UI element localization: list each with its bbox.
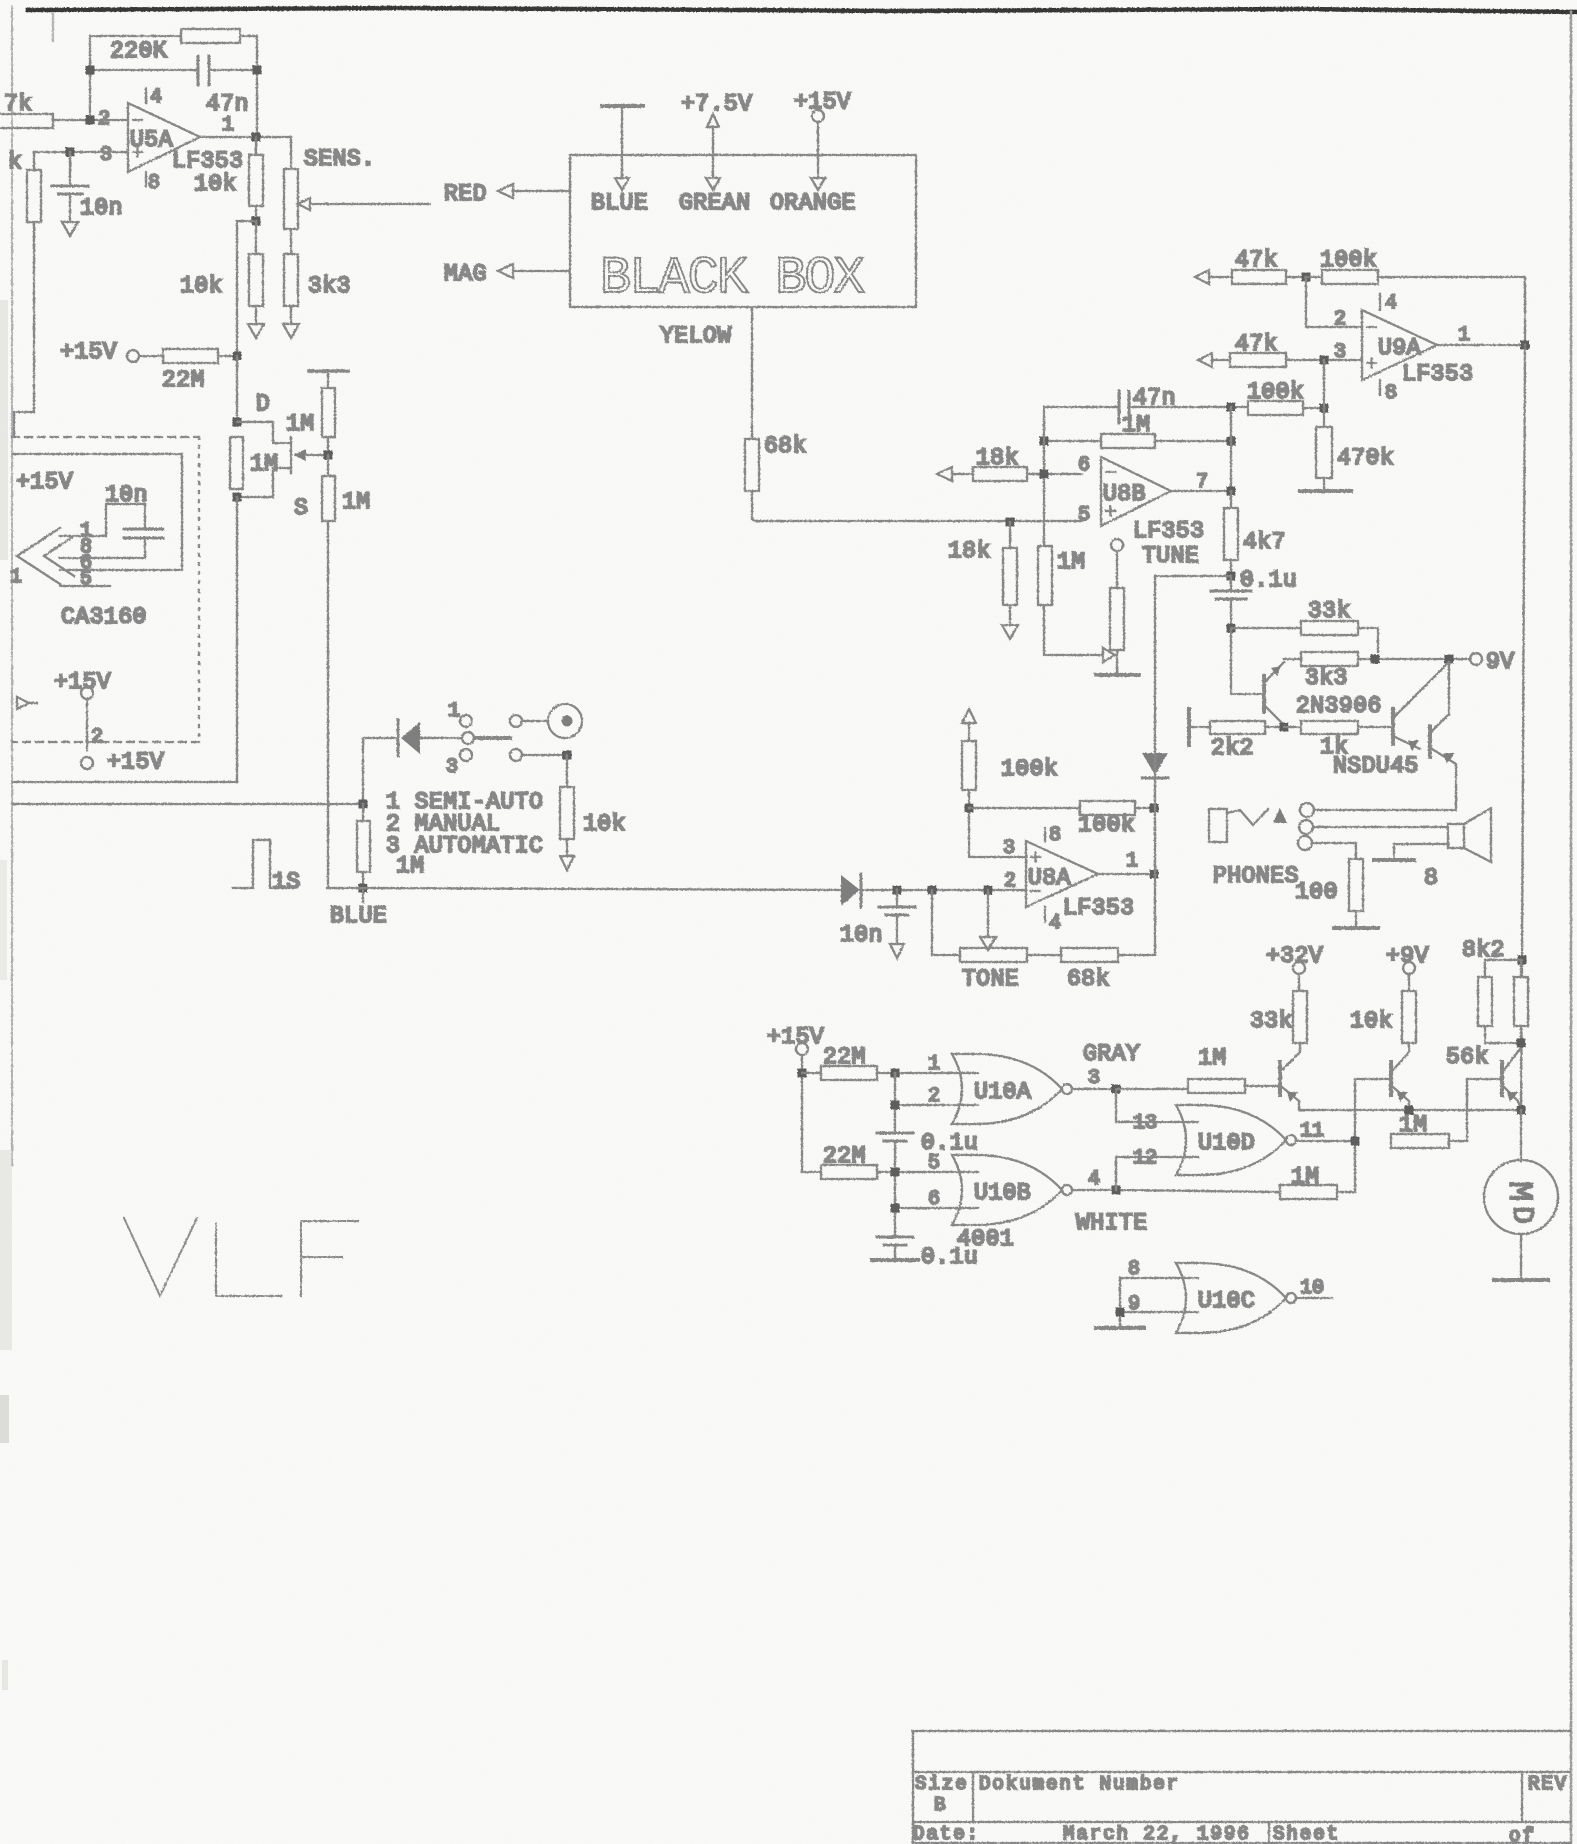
ground 18k b <box>1002 625 1018 639</box>
ground 10k <box>248 324 264 338</box>
resistor 10k pot <box>560 755 574 856</box>
ground motor <box>1494 1234 1548 1280</box>
resistor 8k2 right <box>1514 960 1528 1043</box>
transistor Q5 <box>1391 1050 1409 1110</box>
ground 10n <box>62 222 78 236</box>
ground 3k3 <box>283 324 299 338</box>
wire sw3 to 10k <box>522 754 567 756</box>
terminal circle pin2 bottom <box>81 757 93 769</box>
pin 5 stub <box>60 585 110 587</box>
op-amp U5A <box>128 88 200 186</box>
wire U10A out <box>1072 1088 1116 1090</box>
resistor 18k b <box>1003 522 1017 625</box>
capacitor 0.1u a <box>877 1133 913 1141</box>
connector arrow left <box>17 697 37 709</box>
node pin7 <box>1227 487 1236 496</box>
potentiometer TUNE <box>1110 539 1124 673</box>
wire box bottom <box>13 781 237 783</box>
resistor 68k b <box>1027 948 1118 962</box>
node rail q6 <box>1517 1106 1526 1115</box>
diode D2 <box>841 874 1026 907</box>
arrow 47k b <box>1198 353 1212 367</box>
wire U10C out <box>1296 1297 1332 1299</box>
node source <box>233 493 242 502</box>
page right border <box>1570 12 1573 1844</box>
resistor 33k a <box>1231 621 1378 652</box>
op-amp CA3160 <box>17 528 74 584</box>
wire pin2 <box>86 699 88 750</box>
wire +15V column <box>801 1055 803 1172</box>
node 4k7 bottom <box>1227 572 1236 581</box>
resistor 22M b <box>802 1165 978 1179</box>
wire drain column <box>236 356 238 422</box>
arrow 18k a <box>937 467 952 481</box>
resistor 7k (cut at left edge) <box>0 114 128 128</box>
resistor 10k upper <box>249 137 263 221</box>
resistor 68k vertical <box>745 439 1082 521</box>
wire pin2 u9a <box>1306 277 1362 327</box>
node tone left <box>928 886 937 895</box>
switch SW1 <box>460 715 522 761</box>
wire U10B out WHITE row <box>1072 1190 1280 1192</box>
capacitor 10n <box>52 152 88 222</box>
node 47n right <box>253 66 262 75</box>
node drain <box>233 418 242 427</box>
terminal +32V <box>1293 962 1305 974</box>
wire right bus <box>1521 345 1525 1110</box>
terminal +15V box <box>811 110 825 190</box>
node collector bus <box>1445 655 1454 664</box>
resistor 1M fb <box>1044 434 1231 448</box>
emitter rail <box>1299 1109 1521 1111</box>
resistor 1M f <box>1116 1079 1280 1093</box>
op-amp U9A <box>1362 294 1437 395</box>
node 220k left <box>86 66 95 75</box>
page left border <box>11 6 13 1165</box>
corner mark <box>52 14 54 41</box>
potentiometer SENS <box>284 137 430 229</box>
title block frame <box>913 1731 1570 1843</box>
resistor 1k <box>1284 721 1391 734</box>
wire jack mid to speaker <box>1313 826 1448 828</box>
node rail q5 <box>1405 1106 1414 1115</box>
terminal bar 2k2 <box>1187 709 1191 745</box>
node pin6 <box>891 1204 900 1213</box>
resistor 1M h <box>1280 1185 1355 1199</box>
wire white to pin12 <box>1116 1157 1198 1190</box>
node 10k top <box>563 751 572 760</box>
ground 0.1u b <box>872 1258 918 1262</box>
ground u10c <box>1096 1326 1144 1330</box>
gate U10D <box>1176 1105 1296 1175</box>
resistor 10k b <box>1402 974 1416 1050</box>
capacitor 0.1u b <box>877 1237 913 1258</box>
node u10d out col <box>1351 1137 1360 1146</box>
ground 100 <box>1334 926 1378 930</box>
terminal circle pin2 top <box>81 687 93 699</box>
wire pin8 u10c <box>1120 1277 1198 1279</box>
transistor NSDU45 a <box>1393 662 1449 751</box>
wire long output left <box>13 803 363 805</box>
node GRAY <box>1112 1085 1121 1094</box>
ground 470k <box>1300 489 1351 493</box>
wire U5A output <box>200 136 291 138</box>
potentiometer TONE <box>932 890 1027 962</box>
node pin1 out <box>252 133 261 142</box>
wire BLUE row <box>327 888 841 902</box>
node 1M left column <box>1040 437 1049 446</box>
wire base 2N3906 <box>1231 628 1262 694</box>
terminal 9V <box>1470 653 1482 665</box>
resistor 3k3 b <box>1284 652 1470 666</box>
node 100k c <box>965 804 974 813</box>
gate U10A <box>952 1054 1072 1124</box>
diode D1 <box>363 720 460 804</box>
node U9A out <box>1521 341 1530 350</box>
terminal +9V <box>1403 962 1415 974</box>
resistor 47k b <box>1212 353 1362 367</box>
node WHITE <box>1112 1186 1121 1195</box>
resistor 8k2 left <box>1478 960 1522 1043</box>
node 10k mid <box>252 217 261 226</box>
node pin2 <box>86 116 95 125</box>
wire U8B out <box>1171 490 1231 492</box>
resistor 100 <box>1349 859 1363 926</box>
op-amp U8B <box>1101 457 1171 526</box>
arrow +7.5V <box>706 114 720 190</box>
node base nsdu <box>1280 723 1289 732</box>
wire feedback top <box>90 36 257 137</box>
resistor 22M <box>139 349 237 363</box>
jack PHONES <box>1209 803 1314 850</box>
resistor 22M a <box>802 1066 978 1080</box>
arrow 10k bottom <box>560 856 574 870</box>
node pin3 u9a <box>1320 356 1329 365</box>
resistor 220K <box>181 29 240 43</box>
motor M1 <box>1484 1110 1558 1234</box>
diode D3 down <box>1142 753 1168 778</box>
ground 10n b <box>890 944 904 958</box>
wire U8A out <box>1098 873 1154 875</box>
wire U10D out <box>1296 1140 1355 1142</box>
wire tune node left <box>1155 576 1231 755</box>
resistor 1M mode <box>357 804 370 888</box>
pin 1 wire and cap 10n <box>60 504 163 558</box>
node pin5 row <box>1006 518 1015 527</box>
resistor 100k fb <box>1248 401 1324 415</box>
resistor 4k7 <box>1224 491 1238 576</box>
resistor 1M drain-source <box>230 437 243 489</box>
node 8k2 bottom <box>1517 1039 1526 1048</box>
wire 47n row <box>1044 406 1248 408</box>
arrow tune wiper <box>1103 648 1115 662</box>
resistor 100k d <box>969 801 1154 815</box>
resistor vertical left (k) <box>14 152 41 437</box>
capacitor 47n b <box>1119 391 1129 423</box>
node pin6 <box>1040 470 1049 479</box>
node 8k2 top <box>1518 956 1527 965</box>
capacitor 10n b <box>879 890 915 944</box>
transistor Q6 <box>1502 1049 1521 1110</box>
resistor 3k3 <box>284 229 298 324</box>
wire yellow down <box>751 307 753 439</box>
JFET Q1 <box>237 422 328 497</box>
ground TUNE <box>1096 673 1139 677</box>
node pin1 col <box>891 1069 900 1078</box>
page top border <box>28 8 1577 12</box>
resistor 1M g <box>1391 1079 1502 1148</box>
resistor 100k a <box>1306 270 1525 345</box>
op-amp U8A <box>1026 828 1098 922</box>
resistor 470k <box>1316 408 1332 490</box>
transistor Q4 <box>1280 1050 1300 1110</box>
speaker SP1 <box>1394 808 1491 862</box>
node BLUE <box>359 884 368 893</box>
arrow MAG <box>498 264 570 278</box>
ground speaker <box>1374 858 1414 862</box>
resistor 1M gate lower <box>322 455 335 888</box>
resistor 10k lower <box>249 221 263 324</box>
node 1M right <box>1227 437 1236 446</box>
node mode junction <box>359 800 368 809</box>
pulse 1S symbol <box>233 840 292 888</box>
node 3k3 right <box>1371 655 1380 664</box>
wire pin6 u10b <box>895 1207 978 1209</box>
wire jack tip <box>1314 809 1456 811</box>
node 0.1u bottom <box>1227 624 1236 633</box>
transistor 2N3906 <box>1264 662 1284 727</box>
wire fb column u8a <box>1118 755 1155 955</box>
terminal +15V gates <box>796 1043 808 1055</box>
node 10n b <box>893 886 902 895</box>
node pin9 <box>1116 1308 1125 1317</box>
gate U10C <box>1176 1263 1296 1333</box>
wire pin2 u10a <box>895 1104 978 1106</box>
wire jog to 22M column <box>237 221 256 356</box>
node 22M right <box>233 352 242 361</box>
rail T-bar top <box>309 369 348 373</box>
jack connector <box>522 704 582 738</box>
node pin2 <box>891 1101 900 1110</box>
node U8A out <box>1150 870 1159 879</box>
node wiper top <box>984 886 993 895</box>
wire osc column <box>894 1073 896 1237</box>
node pin5 col <box>891 1168 900 1177</box>
antenna bar <box>602 106 643 190</box>
wire pin9 u10c <box>1120 1278 1198 1326</box>
gate U10B <box>952 1155 1072 1225</box>
resistor 1M gate upper <box>322 371 335 455</box>
logo VLF <box>124 1218 358 1296</box>
capacitor 47n <box>198 56 209 85</box>
wire gray to pin13 <box>1116 1089 1198 1122</box>
wire source column down <box>236 497 238 782</box>
resistor 47k a <box>1209 270 1306 284</box>
BLACK BOX outline <box>570 155 916 307</box>
node gate <box>324 451 333 460</box>
wire jack sleeve <box>1312 843 1356 859</box>
node pin3 <box>66 148 75 157</box>
resistor 33k b <box>1293 974 1307 1050</box>
arrow 47k a <box>1195 270 1209 284</box>
resistor 100k c <box>962 723 1026 857</box>
node 100k right <box>1320 404 1329 413</box>
terminal +15V circle <box>127 350 139 362</box>
node 22M a left <box>798 1069 807 1078</box>
node 47n right <box>1227 403 1236 412</box>
wire cap row <box>90 69 257 71</box>
arrow RED <box>498 184 570 198</box>
resistor 2k2 <box>1189 721 1284 734</box>
capacitor 0.1u tune <box>1211 576 1251 628</box>
dashed box CA3160 <box>12 437 199 742</box>
resistor 18k a <box>952 467 1082 481</box>
node 47k a <box>1302 273 1311 282</box>
node 100k d right <box>1150 804 1159 813</box>
transistor NSDU45 b <box>1430 662 1456 810</box>
arrow supply up <box>962 709 976 723</box>
wire U8B in column <box>1044 407 1231 546</box>
wire U9A out <box>1437 344 1525 346</box>
wire pin3 <box>34 151 128 153</box>
wire CA3160 feedback <box>13 454 182 570</box>
wire pin3 to 100k fb <box>1323 360 1325 408</box>
resistor 1M e <box>1038 546 1103 655</box>
wire Q5 base column <box>1355 1079 1391 1192</box>
pin 8 wire <box>60 557 145 559</box>
